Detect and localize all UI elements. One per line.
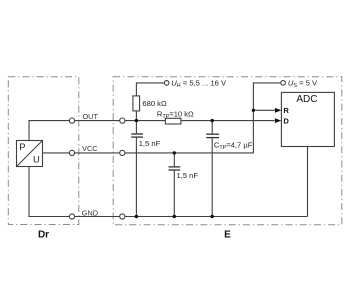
node junction OUT/CTP	[211, 119, 214, 122]
wire ADC ground return	[307, 147, 309, 217]
capacitor C1 1.5nF	[131, 121, 160, 217]
terminal OUT circuit side	[120, 118, 125, 123]
wire VCC (sensor right, riser to supply)	[43, 83, 281, 153]
resistor 680k (pull-up)	[133, 96, 167, 111]
arrow into R pin	[275, 108, 282, 113]
terminal UH supply	[164, 81, 169, 86]
svg-text:R: R	[283, 106, 289, 115]
wire OUT (sensor top to D input)	[29, 121, 275, 141]
node junction GND/CTP	[211, 215, 214, 218]
block Dr (sensor dash-dot box)	[8, 77, 79, 225]
svg-text:1,5 nF: 1,5 nF	[139, 139, 161, 148]
node junction R branch	[252, 109, 255, 112]
svg-text:VCC: VCC	[82, 144, 97, 153]
capacitor CTP 4.7uF	[206, 121, 253, 217]
node junction GND/C1	[135, 215, 138, 218]
wire 680k to UH terminal	[136, 83, 164, 121]
svg-text:680 kΩ: 680 kΩ	[142, 99, 167, 108]
svg-text:1,5 nF: 1,5 nF	[177, 171, 199, 180]
svg-text:Dr: Dr	[38, 230, 49, 241]
ADC U2 box	[281, 92, 334, 146]
terminal US supply	[281, 81, 286, 86]
terminal OUT sensor side	[69, 118, 74, 123]
wire R input branch	[253, 109, 274, 111]
svg-text:P: P	[19, 141, 25, 152]
svg-text:U: U	[33, 154, 40, 165]
svg-text:GND: GND	[82, 208, 98, 217]
node junction VCC/C2	[173, 151, 176, 154]
terminal VCC circuit side	[120, 150, 125, 155]
block E (evaluation circuit dash-dot box)	[113, 77, 342, 225]
node junction GND/C2	[173, 215, 176, 218]
arrow into D pin	[275, 118, 282, 123]
sensor U1 (P/U transducer)	[17, 141, 43, 167]
svg-text:OUT: OUT	[83, 112, 99, 121]
svg-text:D: D	[283, 116, 289, 125]
terminal GND sensor side	[69, 214, 74, 219]
capacitor C2 1.5nF	[169, 153, 199, 217]
resistor RTP	[157, 109, 194, 124]
terminal VCC sensor side	[69, 150, 74, 155]
svg-text:ADC: ADC	[296, 94, 317, 105]
wire GND (sensor bottom along ground rail)	[29, 167, 308, 217]
terminal GND circuit side	[120, 214, 125, 219]
node junction OUT/680k/C1	[135, 119, 138, 122]
svg-text:E: E	[224, 230, 231, 241]
